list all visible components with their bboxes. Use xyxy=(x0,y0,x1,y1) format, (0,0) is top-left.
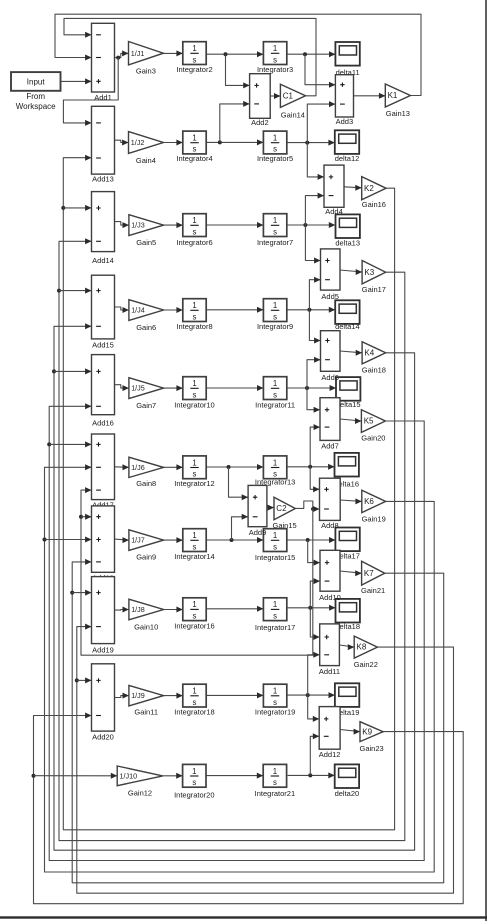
svg-text:Add1: Add1 xyxy=(94,93,112,102)
svg-text:Add11: Add11 xyxy=(319,667,340,676)
scope delta17 xyxy=(335,528,360,561)
svg-text:Integrator3: Integrator3 xyxy=(257,65,293,74)
svg-text:Integrator18: Integrator18 xyxy=(174,708,214,717)
svg-text:delta12: delta12 xyxy=(335,154,360,163)
integrator Integrator6 xyxy=(176,214,212,247)
node row7 right junction xyxy=(306,538,310,542)
svg-text:s: s xyxy=(193,312,197,321)
wire row3 junction down to Add5 port1 xyxy=(305,225,320,264)
wire K9 feedback (Gain23) to Add20 port2 / Gain12 xyxy=(34,713,464,904)
wire Add11 to Gain22 xyxy=(339,644,354,650)
integrator Integrator2 xyxy=(176,42,212,74)
node junction on feedback line xyxy=(75,678,79,682)
svg-text:s: s xyxy=(273,145,277,154)
svg-text:delta20: delta20 xyxy=(335,789,360,798)
sum Add10 xyxy=(319,550,341,602)
wire Add18 output to Gain9 xyxy=(115,537,129,543)
wire K7 feedback (Gain21) to Add18 port3 / Add19 port1 xyxy=(72,559,444,883)
node C2 feedback junction at Add18 xyxy=(79,515,83,519)
svg-text:Integrator2: Integrator2 xyxy=(176,65,212,74)
wire Gain4 to Integrator4 xyxy=(163,140,182,146)
svg-text:Integrator4: Integrator4 xyxy=(176,154,212,163)
svg-text:Gain5: Gain5 xyxy=(136,238,156,247)
svg-text:s: s xyxy=(273,542,277,551)
svg-text:Add3: Add3 xyxy=(336,117,354,126)
wire Integrator12 to Integrator13 xyxy=(206,464,263,470)
wire Add6 to Gain18 xyxy=(340,350,362,356)
wire Add13 output to Gain4 xyxy=(115,140,129,146)
block Input (From Workspace) xyxy=(11,72,61,111)
wire row8 junction down to Add11 port1 xyxy=(310,608,319,640)
sum Add14 xyxy=(92,192,115,266)
svg-text:Gain15: Gain15 xyxy=(273,521,297,530)
svg-text:Add10: Add10 xyxy=(319,593,341,602)
wire K2 feedback (Gain16) to Add13 port2 / Add14 port1 xyxy=(63,155,394,830)
integrator Integrator3 xyxy=(257,42,293,74)
wire Integrator3 to delta11 scope xyxy=(287,51,336,57)
svg-text:1: 1 xyxy=(192,600,196,609)
wire Integrator14 to Integrator15 xyxy=(206,537,263,543)
integrator Integrator16 xyxy=(174,598,214,631)
svg-text:1/J1: 1/J1 xyxy=(131,49,145,58)
gain Gain23 (K9) xyxy=(360,722,384,753)
wire Input to Add1 port3 xyxy=(61,78,92,84)
node junction on feedback line xyxy=(52,369,56,373)
svg-text:K4: K4 xyxy=(364,348,374,357)
sum Add19 xyxy=(92,577,115,655)
svg-text:1: 1 xyxy=(273,687,277,696)
gain Gain19 (K6) xyxy=(362,490,386,523)
node row4 right junction xyxy=(307,308,311,312)
node junction on feedback line xyxy=(70,591,74,595)
wire junction branch into left Add port xyxy=(45,537,92,543)
wire row7 junction down to Add10 port1 xyxy=(308,540,320,566)
wire row6 junction up to Add7 port2 xyxy=(310,424,320,467)
node junction on feedback line xyxy=(61,206,65,210)
node row5 right junction xyxy=(305,386,309,390)
svg-text:s: s xyxy=(193,470,197,479)
wire row3 junction up to Add4 port2 xyxy=(305,193,324,225)
svg-text:Gain18: Gain18 xyxy=(362,366,386,375)
svg-text:Add13: Add13 xyxy=(92,174,114,183)
integrator Integrator10 xyxy=(174,377,214,410)
svg-text:Integrator12: Integrator12 xyxy=(174,479,214,488)
wire C2 feedback branch to Add18 port1 xyxy=(81,514,92,520)
node C2 branch junction xyxy=(311,507,315,511)
wire K9 junction to Gain12 input xyxy=(34,773,118,779)
svg-text:Add9: Add9 xyxy=(249,528,267,537)
svg-text:1: 1 xyxy=(192,379,196,388)
svg-text:K9: K9 xyxy=(362,727,372,736)
svg-text:1: 1 xyxy=(273,301,277,310)
svg-text:1/J9: 1/J9 xyxy=(131,691,145,700)
wire C2 feedback (Gain15 output to Add8 port2) xyxy=(295,501,319,512)
svg-text:Gain22: Gain22 xyxy=(354,660,378,669)
wire Integrator18 to Integrator19 xyxy=(206,692,263,698)
svg-text:1/J10: 1/J10 xyxy=(120,772,138,781)
sum Add16 xyxy=(92,355,115,428)
wire row8 junction up to Add10 port2 xyxy=(310,578,320,608)
svg-text:1: 1 xyxy=(192,687,196,696)
integrator Integrator17 xyxy=(255,598,295,632)
svg-text:Gain9: Gain9 xyxy=(136,553,156,562)
sum Add3 xyxy=(335,75,353,126)
wire Gain3 to Integrator2 xyxy=(163,50,182,56)
sum Add9 xyxy=(248,485,267,537)
wire Add20 output to Gain11 xyxy=(115,693,129,699)
gain Gain5 (1/J3) xyxy=(129,215,164,247)
wire junction branch into left Add port xyxy=(63,205,91,211)
scope delta18 xyxy=(335,599,360,631)
svg-text:Gain21: Gain21 xyxy=(361,586,385,595)
wire Integrator7 to delta13 scope xyxy=(287,222,335,228)
svg-text:delta13: delta13 xyxy=(335,238,360,247)
integrator Integrator18 xyxy=(174,684,214,717)
gain Gain13 (K1) xyxy=(385,84,410,118)
svg-text:K7: K7 xyxy=(364,569,374,578)
gain Gain21 (K7) xyxy=(361,561,385,595)
svg-text:1/J8: 1/J8 xyxy=(131,605,145,614)
wire Gain11 to Integrator18 xyxy=(164,693,183,699)
wire Add12 to Gain23 xyxy=(340,729,360,735)
svg-text:s: s xyxy=(193,145,197,154)
gain Gain3 (1/J1) xyxy=(129,42,164,76)
integrator Integrator13 xyxy=(255,456,295,487)
wire K4 feedback (Gain18) to Add15 port2 / Add16 port1 xyxy=(54,323,415,850)
svg-text:1: 1 xyxy=(192,44,196,53)
node row9 right junction xyxy=(306,693,310,697)
wire Integrator9 to delta14 scope xyxy=(287,307,335,313)
wire Integrator16 to Integrator17 xyxy=(206,606,263,612)
node row8 right junction xyxy=(308,606,312,610)
svg-text:s: s xyxy=(273,55,277,64)
svg-text:Integrator19: Integrator19 xyxy=(255,708,295,717)
wire row4 junction down to Add6 port1 xyxy=(309,310,320,344)
wire K1 feedback (Gain13 output to Add1 port2) xyxy=(55,14,421,95)
svg-text:Integrator15: Integrator15 xyxy=(255,553,295,562)
svg-text:Gain7: Gain7 xyxy=(136,401,156,410)
sum Add13 xyxy=(92,106,115,183)
svg-text:K2: K2 xyxy=(364,184,374,193)
wire Gain12 to Integrator20 xyxy=(163,773,183,779)
gain Gain14 (C1) xyxy=(280,84,305,119)
wire row5 junction down to Add7 port1 xyxy=(307,388,320,413)
svg-text:K6: K6 xyxy=(364,497,374,506)
node row10 right junction xyxy=(308,773,312,777)
wire Integrator4 to Integrator5 xyxy=(206,139,263,145)
svg-text:Gain13: Gain13 xyxy=(386,109,410,118)
wire row6 junction down to Add8 port1 xyxy=(310,467,319,493)
integrator Integrator19 xyxy=(255,684,295,717)
svg-text:1: 1 xyxy=(273,379,277,388)
svg-text:1/J3: 1/J3 xyxy=(131,221,145,230)
svg-text:Gain16: Gain16 xyxy=(362,200,386,209)
scope delta13 xyxy=(335,214,360,247)
wire row9 junction down to Add12 port1 xyxy=(308,695,320,722)
wire Add10 to Gain21 xyxy=(340,570,362,576)
svg-text:Gain8: Gain8 xyxy=(136,479,156,488)
sum Add12 xyxy=(319,707,341,760)
gain Gain20 (K5) xyxy=(361,410,385,443)
wire Gain6 to Integrator8 xyxy=(164,307,183,313)
scope delta19 xyxy=(335,683,360,717)
svg-text:1/J6: 1/J6 xyxy=(131,463,145,472)
svg-text:1: 1 xyxy=(192,458,196,467)
node after Add1 xyxy=(116,56,120,60)
wire C1 feedback (Gain14 output to Add1 port1) xyxy=(64,18,316,95)
integrator Integrator12 xyxy=(174,456,214,488)
wire Add15 output to Gain6 xyxy=(115,307,129,313)
integrator Integrator5 xyxy=(257,131,293,163)
svg-text:1: 1 xyxy=(192,767,196,776)
node row1 mid junction xyxy=(224,52,228,56)
svg-text:s: s xyxy=(273,778,277,787)
node junction on feedback line xyxy=(47,442,51,446)
wire junction branch into left Add port xyxy=(59,288,92,294)
svg-text:Add6: Add6 xyxy=(321,373,339,382)
svg-text:C1: C1 xyxy=(283,91,294,100)
svg-text:s: s xyxy=(193,542,197,551)
wire Gain9 to Integrator14 xyxy=(164,537,183,543)
wire Integrator10 to Integrator11 xyxy=(206,385,263,391)
sum Add6 xyxy=(321,331,341,382)
wire K5 feedback (Gain20) to Add16 port2 / Add17 port1 xyxy=(49,403,424,860)
svg-text:Input: Input xyxy=(27,77,46,86)
wire Gain10 to Integrator16 xyxy=(164,607,183,613)
node row6 mid junction xyxy=(227,465,231,469)
svg-text:Add14: Add14 xyxy=(92,256,114,265)
svg-text:s: s xyxy=(193,227,197,236)
integrator Integrator21 xyxy=(255,764,295,798)
node row3 right junction xyxy=(303,223,307,227)
gain Gain15 (C2) xyxy=(273,497,297,530)
wire row9 junction up to Add11 port2 xyxy=(308,652,320,695)
node junction on feedback line xyxy=(43,538,47,542)
svg-text:1: 1 xyxy=(192,301,196,310)
svg-text:Integrator6: Integrator6 xyxy=(176,238,212,247)
svg-text:Gain17: Gain17 xyxy=(362,285,386,294)
svg-text:Gain23: Gain23 xyxy=(360,744,384,753)
wire junction branch into left Add port xyxy=(72,590,91,596)
svg-text:s: s xyxy=(193,698,197,707)
svg-text:s: s xyxy=(193,55,197,64)
wire Add2 to Gain14 xyxy=(270,93,280,99)
svg-text:Gain4: Gain4 xyxy=(136,156,156,165)
wire Integrator2 to Integrator3 xyxy=(206,51,263,57)
sum Add2 xyxy=(250,74,271,127)
integrator Integrator7 xyxy=(257,214,293,247)
svg-text:K8: K8 xyxy=(357,643,367,652)
svg-text:Gain11: Gain11 xyxy=(134,708,158,717)
svg-text:From: From xyxy=(26,92,45,101)
gain Gain11 (1/J9) xyxy=(129,685,164,716)
svg-text:1/J5: 1/J5 xyxy=(131,384,145,393)
wire row1 junction down to Add3 port1 xyxy=(305,54,335,87)
svg-text:K1: K1 xyxy=(388,91,398,100)
wire row2 junction up to Add2 port2 xyxy=(220,101,250,142)
wire Add1 output to Gain3 xyxy=(115,50,129,57)
svg-text:Integrator14: Integrator14 xyxy=(174,552,214,561)
svg-text:K5: K5 xyxy=(364,417,374,426)
sum Add17 xyxy=(92,434,115,510)
wire K3 feedback (Gain17) to Add14 port2 / Add15 port1 xyxy=(59,238,405,840)
node row2 right junction xyxy=(305,141,309,145)
gain Gain16 (K2) xyxy=(362,177,386,210)
svg-text:1: 1 xyxy=(192,216,196,225)
svg-text:1: 1 xyxy=(273,531,277,540)
svg-text:1/J7: 1/J7 xyxy=(131,536,145,545)
gain Gain17 (K3) xyxy=(362,261,386,294)
wire Add19 output to Gain10 xyxy=(115,607,129,613)
svg-text:1: 1 xyxy=(273,134,277,143)
scope delta20 xyxy=(335,764,360,798)
wire K8 feedback (Gain22) to Add19 port2 / Add20 port1 xyxy=(77,624,454,894)
gain Gain18 (K4) xyxy=(362,342,386,375)
svg-text:s: s xyxy=(193,390,197,399)
scope delta14 xyxy=(335,300,360,331)
wire C2 feedback long branch to Add17 port3 xyxy=(81,487,313,655)
wire Integrator21 to delta20 scope xyxy=(288,772,335,778)
svg-text:s: s xyxy=(273,390,277,399)
wire Gain7 to Integrator10 xyxy=(164,385,183,391)
svg-text:1: 1 xyxy=(273,458,277,467)
svg-text:s: s xyxy=(273,611,277,620)
sum Add8 xyxy=(320,478,341,530)
gain Gain7 (1/J5) xyxy=(129,378,164,410)
wire row10 junction up to Add12 port2 xyxy=(310,733,319,775)
wire Add14 output to Gain5 xyxy=(115,222,129,229)
integrator Integrator14 xyxy=(174,529,214,561)
wire row5 junction up to Add6 port2 xyxy=(307,357,321,388)
wire Integrator8 to Integrator9 xyxy=(206,307,263,313)
svg-text:1: 1 xyxy=(273,44,277,53)
gain Gain10 (1/J8) xyxy=(129,599,164,631)
wire Integrator6 to Integrator7 xyxy=(206,222,263,228)
svg-text:C2: C2 xyxy=(276,504,287,513)
integrator Integrator9 xyxy=(257,299,293,331)
wire Add3 to Gain13 xyxy=(354,93,386,99)
node junction on feedback line xyxy=(57,289,61,293)
node row1 right junction xyxy=(303,52,307,56)
svg-text:Add15: Add15 xyxy=(92,341,114,350)
wire Add9 to Gain15 xyxy=(267,505,274,511)
svg-text:s: s xyxy=(192,778,196,787)
svg-text:Integrator20: Integrator20 xyxy=(174,791,214,800)
svg-text:Add2: Add2 xyxy=(251,118,269,127)
svg-text:Add5: Add5 xyxy=(321,292,339,301)
svg-text:Integrator7: Integrator7 xyxy=(257,238,293,247)
svg-text:Add19: Add19 xyxy=(92,645,114,654)
svg-text:Integrator9: Integrator9 xyxy=(257,322,293,331)
gain Gain12 (1/J10) xyxy=(117,766,163,798)
svg-text:1: 1 xyxy=(273,767,277,776)
gain Gain6 (1/J4) xyxy=(129,300,164,332)
wire row4 junction up to Add5 port2 xyxy=(309,277,320,310)
sum Add1 xyxy=(92,23,115,102)
gain Gain8 (1/J6) xyxy=(129,457,164,488)
svg-text:s: s xyxy=(193,611,197,620)
svg-text:delta14: delta14 xyxy=(335,322,360,331)
svg-text:Add7: Add7 xyxy=(321,441,339,450)
wire row6 junction down to Add9 port1 xyxy=(229,467,249,500)
gain Gain4 (1/J2) xyxy=(129,132,164,165)
border bottom edge xyxy=(0,916,487,918)
integrator Integrator11 xyxy=(255,377,295,410)
wire Integrator19 to delta19 scope xyxy=(287,692,335,698)
scope delta12 xyxy=(335,130,360,163)
svg-text:Integrator16: Integrator16 xyxy=(174,622,214,631)
wire row7 junction up to Add9 port2 xyxy=(232,514,249,540)
wire Gain5 to Integrator6 xyxy=(164,222,183,228)
node row2 mid junction xyxy=(218,140,222,144)
wire Integrator17 to delta18 scope xyxy=(287,605,336,611)
wire Gain8 to Integrator12 xyxy=(164,464,183,470)
wire Integrator5 to delta12 scope xyxy=(287,140,335,146)
node junction on feedback line xyxy=(32,774,36,778)
svg-text:Add12: Add12 xyxy=(319,750,341,759)
sum Add18 xyxy=(92,506,115,583)
wire row2 junction down to Add4 port1 xyxy=(307,143,324,180)
svg-text:Integrator5: Integrator5 xyxy=(257,154,293,163)
sum Add5 xyxy=(321,249,341,301)
scope delta15 xyxy=(336,377,361,409)
gain Gain22 (K8) xyxy=(354,636,378,669)
svg-text:Integrator21: Integrator21 xyxy=(255,789,295,798)
wire Integrator11 to delta15 scope xyxy=(287,385,336,391)
svg-text:1: 1 xyxy=(192,531,196,540)
svg-text:Integrator8: Integrator8 xyxy=(176,322,212,331)
sum Add11 xyxy=(319,624,340,676)
wire Integrator15 to delta17 scope xyxy=(287,537,336,543)
wire Add5 to Gain17 xyxy=(340,269,362,275)
node row7 mid junction xyxy=(230,538,234,542)
integrator Integrator20 xyxy=(174,764,214,799)
wire Integrator13 to delta16 scope xyxy=(287,464,335,470)
svg-text:1: 1 xyxy=(192,134,196,143)
wire Add16 output to Gain7 xyxy=(115,385,129,391)
gain Gain9 (1/J7) xyxy=(129,530,164,562)
svg-text:s: s xyxy=(273,312,277,321)
border right edge xyxy=(485,0,487,921)
wire junction branch into left Add port xyxy=(49,441,91,447)
svg-text:1/J4: 1/J4 xyxy=(131,306,145,315)
svg-text:1: 1 xyxy=(273,216,277,225)
svg-text:Gain10: Gain10 xyxy=(134,623,158,632)
svg-text:Gain6: Gain6 xyxy=(136,323,156,332)
svg-text:Gain20: Gain20 xyxy=(361,433,385,442)
sum Add4 xyxy=(324,165,344,216)
wire junction branch into left Add port xyxy=(77,677,92,683)
svg-text:Add20: Add20 xyxy=(92,733,114,742)
wire Add17 output to Gain8 xyxy=(115,464,129,470)
svg-text:Gain12: Gain12 xyxy=(128,789,152,798)
wire Add7 to Gain20 xyxy=(340,418,361,424)
wire K6 feedback (Gain19) to Add17 port2 / Add18 port2 xyxy=(45,464,435,872)
integrator Integrator8 xyxy=(176,299,212,331)
svg-text:Gain19: Gain19 xyxy=(362,514,386,523)
svg-text:Integrator17: Integrator17 xyxy=(255,623,295,632)
wire junction branch into left Add port xyxy=(54,368,92,374)
wire Add4 to Gain16 xyxy=(344,185,362,191)
integrator Integrator4 xyxy=(176,131,212,163)
integrator Integrator15 xyxy=(255,529,295,562)
wire row1 junction down to Add2 port1 xyxy=(226,54,250,88)
wire Add8 to Gain19 xyxy=(340,498,362,504)
sum Add20 xyxy=(92,664,115,742)
svg-text:Add8: Add8 xyxy=(321,521,339,530)
node row6 right junction xyxy=(308,465,312,469)
svg-text:Workspace: Workspace xyxy=(16,102,56,111)
